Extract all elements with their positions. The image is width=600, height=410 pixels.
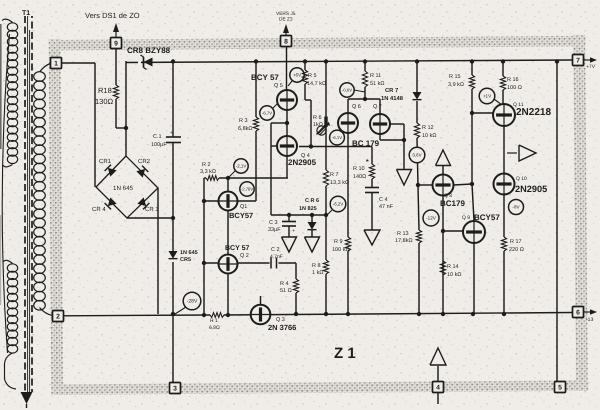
svg-text:47 nF: 47 nF	[379, 204, 394, 210]
wire node 9 down / resistor R18	[115, 49, 117, 86]
diode CR5 1N645	[168, 251, 178, 262]
arrow right mid	[507, 152, 517, 154]
wire Q7 collector to ground arrow	[379, 134, 381, 140]
core ground arrow	[21, 392, 33, 404]
svg-text:C R 6: C R 6	[305, 198, 319, 204]
Q4 base lead	[271, 145, 277, 147]
wire R5 vertical	[304, 61, 306, 70]
wire Q5-Q4 vertical	[286, 90, 288, 178]
transistor Q9 BCY57	[463, 221, 485, 243]
svg-text:-13: -13	[586, 317, 593, 323]
wire Q4 collector row y146.5	[299, 146, 372, 148]
svg-text:3,9 kΩ: 3,9 kΩ	[448, 82, 464, 88]
capacitor C2	[270, 258, 272, 269]
svg-text:1N 645: 1N 645	[180, 250, 198, 256]
svg-text:-6,7V: -6,7V	[262, 111, 272, 116]
svg-text:R 3: R 3	[239, 118, 248, 124]
scan edge streak	[0, 24, 2, 149]
test point 0,6V on line	[409, 147, 425, 163]
svg-text:-12V: -12V	[426, 216, 437, 221]
wire Q10 emitter R17	[503, 194, 505, 237]
border shading band right	[573, 35, 588, 391]
wire R7 R8 vertical x326	[325, 61, 327, 117]
svg-text:2N2905: 2N2905	[288, 158, 317, 167]
svg-text:CR 3: CR 3	[145, 206, 159, 213]
svg-text:-28V: -28V	[187, 299, 198, 305]
transformer T1 core	[24, 16, 26, 392]
svg-text:100 kΩ: 100 kΩ	[332, 247, 350, 253]
svg-text:DE Z3: DE Z3	[279, 17, 293, 23]
wire R10 C4 vertical x372	[371, 147, 373, 165]
wire Q2 base row / C2 row	[204, 262, 270, 264]
svg-text:9: 9	[114, 40, 118, 47]
svg-text:3: 3	[173, 385, 177, 392]
border shading band top	[50, 36, 586, 51]
svg-text:Z 1: Z 1	[334, 345, 356, 362]
test point -2,78V	[240, 182, 254, 196]
wire Q1 Q2 vertical x228	[227, 178, 229, 315]
ground arrow below CR6	[305, 237, 320, 252]
svg-text:R18: R18	[98, 86, 112, 95]
svg-text:+: +	[292, 228, 295, 234]
wire R2 row y178	[204, 177, 206, 179]
svg-text:Vers DS1 de ZO: Vers DS1 de ZO	[85, 11, 140, 20]
test point -6,7V	[273, 103, 278, 108]
bottom negative rail	[63, 314, 210, 317]
node 6	[573, 307, 584, 318]
resistor R4	[295, 263, 297, 279]
resistor R14	[440, 261, 445, 275]
svg-text:BC179: BC179	[440, 199, 465, 208]
svg-text:2N2218: 2N2218	[516, 107, 551, 118]
svg-text:R 1: R 1	[210, 318, 218, 324]
svg-text:Q 5: Q 5	[274, 83, 283, 89]
svg-text:4: 4	[436, 384, 440, 391]
transistor Q7 BC179	[370, 114, 390, 134]
wire base line x205	[203, 178, 205, 315]
transistor Q11 2N2218	[493, 104, 515, 126]
svg-text:BCY 57: BCY 57	[251, 73, 279, 82]
svg-text:R 7: R 7	[330, 172, 339, 178]
wire x472 down to Q9	[471, 113, 473, 184]
zener CR6 1N825	[311, 215, 313, 222]
test point -6,1V	[330, 130, 345, 145]
svg-text:CR 4: CR 4	[92, 206, 106, 213]
wire R3 vertical x256	[255, 61, 257, 117]
wire bridge right vertex down to bottom rail	[157, 188, 159, 314]
test point -2,1V	[228, 171, 235, 178]
transformer primary winding lower	[7, 264, 17, 272]
diode CR3	[137, 197, 149, 209]
svg-text:-6,2V: -6,2V	[333, 202, 344, 207]
svg-text:R 9: R 9	[334, 239, 343, 245]
transistor Q2 BCY57	[219, 255, 238, 274]
svg-text:R 6: R 6	[313, 115, 322, 121]
transistor Q10 2N2905	[494, 174, 515, 195]
svg-text:6: 6	[576, 309, 580, 316]
capacitor C1	[166, 136, 181, 138]
test point +6V	[288, 81, 292, 86]
svg-text:17,8kΩ: 17,8kΩ	[395, 238, 413, 244]
svg-text:R 2: R 2	[202, 162, 211, 168]
svg-text:Q 7: Q 7	[373, 104, 382, 110]
svg-text:C 3: C 3	[269, 220, 278, 226]
test point -6,2V	[327, 210, 332, 215]
svg-text:4,7nF: 4,7nF	[270, 254, 283, 260]
svg-text:R 11: R 11	[370, 73, 381, 79]
resistor R1 6,8 ohm in rail	[210, 313, 224, 318]
svg-text:33µF: 33µF	[268, 227, 281, 233]
transformer primary winding upper	[7, 23, 17, 31]
svg-text:VERS J5: VERS J5	[276, 11, 296, 17]
diode CR2	[136, 166, 148, 178]
svg-text:R 8: R 8	[312, 263, 321, 269]
svg-text:1 kΩ: 1 kΩ	[312, 270, 323, 276]
svg-text:1N 4148: 1N 4148	[381, 95, 404, 102]
+7V arrow	[584, 59, 594, 61]
svg-text:51 Ω: 51 Ω	[280, 288, 292, 294]
svg-text:10 kΩ: 10 kΩ	[447, 272, 462, 278]
svg-text:13,3 kΩ: 13,3 kΩ	[330, 180, 349, 186]
wire Q6 emitter R9 vertical	[347, 133, 349, 237]
node 7	[573, 55, 584, 66]
svg-text:+1V: +1V	[483, 94, 492, 99]
svg-text:R 12: R 12	[422, 125, 434, 131]
svg-text:C.1: C.1	[153, 134, 162, 140]
wire rail crossing down to node 5	[556, 61, 558, 381]
svg-text:51 kΩ: 51 kΩ	[370, 81, 385, 87]
wire C1 branch vertical	[172, 61, 174, 137]
svg-text:R 14: R 14	[447, 264, 459, 270]
node 1	[51, 58, 62, 69]
border shading band bottom	[51, 380, 588, 395]
svg-text:140Ω: 140Ω	[353, 174, 366, 180]
svg-text:*: *	[366, 159, 369, 166]
test point -0,6V	[354, 90, 365, 92]
node 8	[281, 36, 292, 47]
-13V arrow	[584, 311, 594, 313]
svg-text:6,8kΩ: 6,8kΩ	[238, 126, 253, 132]
wire R16 vertical	[502, 61, 504, 76]
rail corner down to bridge	[125, 61, 127, 156]
svg-text:-2,1V: -2,1V	[236, 164, 247, 169]
wire Q1 base row	[204, 200, 256, 202]
test point -28V	[175, 307, 186, 314]
transistor Q8 BC179	[442, 166, 444, 175]
svg-text:1: 1	[54, 60, 58, 67]
wire node 8 down to Q5 collector	[286, 47, 288, 91]
svg-text:Q 10: Q 10	[516, 176, 527, 182]
svg-text:R 13: R 13	[397, 231, 409, 237]
svg-text:BCY 57: BCY 57	[225, 245, 249, 252]
svg-text:+6V: +6V	[293, 73, 302, 78]
svg-text:-6,1V: -6,1V	[332, 135, 342, 140]
svg-text:R 10: R 10	[353, 166, 365, 172]
svg-text:Q 9: Q 9	[462, 215, 470, 221]
svg-text:0,6V: 0,6V	[412, 153, 421, 158]
svg-text:130Ω: 130Ω	[95, 97, 114, 106]
svg-text:R 17: R 17	[510, 239, 522, 245]
wire R15 vertical	[471, 61, 473, 75]
test point -8V	[509, 200, 524, 215]
svg-text:+: +	[170, 130, 173, 136]
svg-text:6,8Ω: 6,8Ω	[209, 325, 220, 331]
border shading band left	[49, 39, 64, 395]
arrow above Q8	[436, 150, 451, 166]
wire Q4 collector to C3 branch	[271, 122, 287, 124]
transformer secondary winding	[34, 72, 46, 82]
ground arrow below C4	[364, 230, 380, 245]
transistor Q5 BCY57	[277, 90, 297, 110]
wire C3 CR6 row y215	[271, 214, 326, 216]
capacitor C4	[365, 187, 379, 189]
svg-text:CR 7: CR 7	[385, 87, 398, 94]
svg-text:R 4: R 4	[280, 281, 289, 287]
transistor Q6 BC179	[338, 113, 358, 133]
node 9	[111, 38, 122, 49]
wire R11 vertical	[364, 61, 366, 71]
svg-text:Q 2: Q 2	[240, 253, 249, 259]
bridge rectifier diamond	[96, 156, 158, 218]
capacitor C3	[288, 215, 290, 222]
svg-text:Q 6: Q 6	[352, 104, 361, 110]
diode CR7 1N4148	[413, 92, 422, 100]
top positive rail	[126, 60, 572, 63]
svg-text:T1: T1	[22, 10, 30, 17]
zener diode CR8 BZY88	[138, 56, 141, 66]
wire bridge bottom to C1 line	[127, 217, 173, 219]
svg-text:7: 7	[576, 57, 580, 64]
svg-text:2: 2	[56, 313, 60, 320]
transformer primary bracket lead	[2, 34, 9, 353]
wire Q6 Q7 collector tie	[348, 98, 380, 100]
node 3	[170, 383, 181, 394]
svg-text:+7V: +7V	[586, 64, 596, 70]
svg-text:100µF: 100µF	[151, 142, 167, 148]
test point -12V	[423, 210, 439, 226]
svg-text:14,7 kΩ: 14,7 kΩ	[307, 81, 326, 87]
svg-text:220 Ω: 220 Ω	[509, 247, 524, 253]
ground arrow x404	[397, 170, 412, 186]
wire Q8 to Q9 collector	[454, 184, 473, 185]
svg-text:CR8 BZY88: CR8 BZY88	[127, 46, 171, 55]
diode CR1	[105, 165, 117, 177]
node 4 with arrow	[433, 382, 444, 393]
svg-text:BCY57: BCY57	[229, 211, 253, 220]
svg-text:1N 825: 1N 825	[299, 206, 317, 212]
svg-text:-2,78V: -2,78V	[241, 187, 254, 192]
wire Q9 base to Q8 emitter line	[441, 229, 445, 233]
svg-text:2N2905: 2N2905	[515, 184, 547, 194]
wire CR7 R12 R13 vertical x418	[416, 61, 418, 92]
ground arrow below C3	[282, 237, 297, 252]
svg-text:CR5: CR5	[180, 257, 191, 263]
svg-text:R 15: R 15	[449, 74, 461, 80]
wire Q9 emitter to rail	[473, 243, 475, 314]
node 2	[53, 311, 64, 322]
svg-text:C 4: C 4	[379, 197, 388, 203]
test point +1V	[494, 99, 502, 105]
svg-text:CR1: CR1	[99, 158, 112, 165]
wire node1 to bridge left vertex	[61, 62, 95, 64]
wire Q11 base	[472, 112, 493, 114]
svg-text:CR2: CR2	[138, 158, 151, 165]
svg-text:BC 179: BC 179	[352, 139, 380, 148]
transistor Q3 2N3766	[260, 296, 262, 305]
svg-text:R 5: R 5	[308, 73, 317, 79]
svg-text:1N 645: 1N 645	[113, 185, 134, 192]
svg-text:100 Ω: 100 Ω	[507, 85, 522, 91]
svg-text:R 16: R 16	[507, 77, 519, 83]
svg-text:-8V: -8V	[512, 205, 520, 210]
transistor Q4 2N2905	[277, 136, 297, 156]
svg-text:BCY57: BCY57	[474, 213, 500, 222]
svg-text:-0,6V: -0,6V	[342, 88, 352, 93]
svg-text:10 kΩ: 10 kΩ	[422, 133, 437, 139]
wire Q11 emitter to Q10	[503, 126, 505, 173]
node 5	[555, 382, 566, 393]
svg-text:C 2: C 2	[271, 247, 280, 253]
svg-text:3,3 kΩ: 3,3 kΩ	[200, 169, 216, 175]
transistor Q1 BCY57	[219, 192, 238, 211]
svg-text:5: 5	[558, 384, 562, 391]
svg-text:Q1: Q1	[240, 204, 247, 210]
diode CR4	[105, 197, 117, 209]
svg-text:2N 3766: 2N 3766	[268, 323, 296, 332]
svg-text:8: 8	[284, 38, 288, 45]
